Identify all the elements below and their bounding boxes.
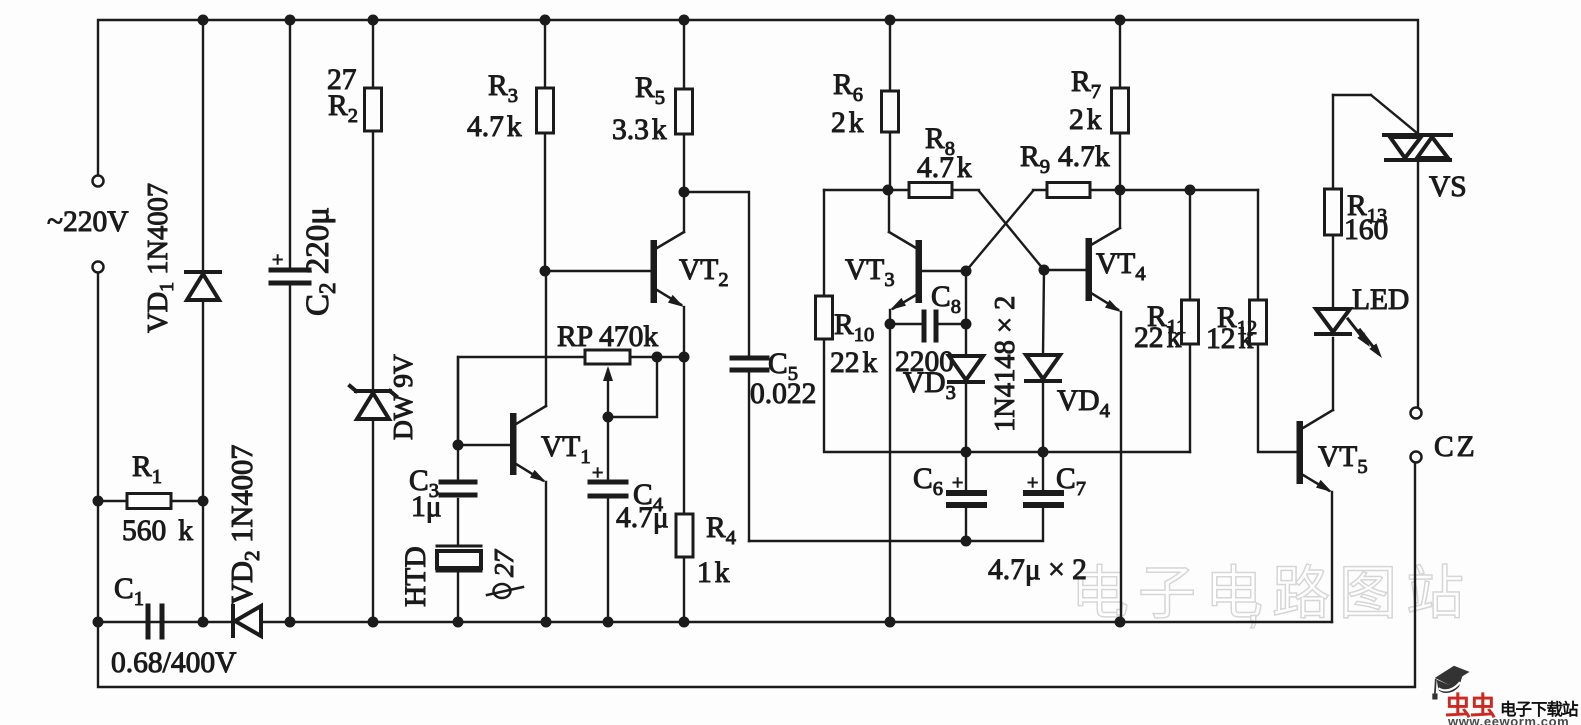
- svg-text:2k: 2k: [831, 107, 864, 139]
- junction C2 bottom: [285, 617, 296, 628]
- capacitor C4: [607, 417, 609, 480]
- svg-text:VT1: VT1: [541, 431, 591, 468]
- terminal CZ upper: [1411, 408, 1422, 419]
- resistor R3: [544, 20, 546, 88]
- junction C8 left: [885, 319, 896, 330]
- wire VT4 base: [1044, 269, 1086, 271]
- svg-text:4.7μ × 2: 4.7μ × 2: [988, 554, 1087, 586]
- svg-text:VS: VS: [1429, 171, 1467, 203]
- junction R1 left: [93, 496, 104, 507]
- logo chongchong red characters: [1445, 686, 1495, 723]
- junction VT2 emitter node: [679, 352, 690, 363]
- capacitor C6: [965, 452, 967, 491]
- resistor R11: [1189, 190, 1191, 300]
- svg-text:R1: R1: [132, 451, 162, 488]
- resistor R4: [683, 357, 685, 514]
- junction VT3 emitter bottom: [885, 617, 896, 628]
- junction R2 bottom: [368, 617, 379, 628]
- svg-text:R6: R6: [833, 69, 863, 106]
- junction VD3 bottom: [961, 447, 972, 458]
- wire VT3 base: [921, 270, 966, 272]
- svg-text:R5: R5: [635, 72, 665, 109]
- junction RP wiper: [603, 412, 614, 423]
- wire ground rail right: [261, 621, 1332, 623]
- svg-text:R7: R7: [1071, 66, 1101, 103]
- svg-text:1k: 1k: [697, 557, 730, 589]
- svg-text:VT2: VT2: [679, 254, 729, 291]
- junction VT1 collector node: [540, 266, 551, 277]
- svg-text:C2 220μ: C2 220μ: [300, 207, 340, 316]
- resistor R13: [1333, 94, 1371, 96]
- svg-text:0.68/400V: 0.68/400V: [111, 647, 236, 679]
- junction R1 right: [198, 496, 209, 507]
- svg-text:1μ: 1μ: [411, 491, 442, 523]
- wire C3 column: [457, 357, 459, 479]
- svg-text:12k: 12k: [1206, 323, 1254, 355]
- capacitor C2: [289, 20, 291, 268]
- potentiometer RP: [630, 356, 684, 358]
- resistor R1: [98, 500, 127, 502]
- resistor R2: [372, 20, 374, 88]
- logo site name: [1500, 696, 1578, 720]
- svg-text:HTD: HTD: [400, 546, 432, 607]
- wire R9 diagonal to VT3 base: [966, 191, 1033, 271]
- svg-text:0.022: 0.022: [750, 378, 816, 410]
- junction VT2 collector node: [679, 187, 690, 198]
- svg-text:VT4: VT4: [1096, 248, 1146, 285]
- capacitor C5: [684, 192, 749, 356]
- svg-text:R4: R4: [706, 512, 736, 549]
- logo url: [1448, 714, 1569, 725]
- junction HTD bottom: [453, 617, 464, 628]
- svg-text:R10: R10: [834, 309, 874, 346]
- watermark dianzi dianlu tuzhan: [1071, 546, 1473, 630]
- capacitor C3: [441, 480, 475, 485]
- resistor R7: [1119, 20, 1121, 88]
- diode VD1: [202, 20, 204, 269]
- svg-text:+: +: [592, 462, 603, 484]
- wire R8 diagonal to VT4 base: [979, 191, 1044, 270]
- wire VT1 base feed: [458, 357, 585, 445]
- junction C1 left: [93, 617, 104, 628]
- svg-text:2k: 2k: [1069, 104, 1102, 136]
- svg-text:VD4: VD4: [1057, 385, 1110, 422]
- junction RP right: [652, 352, 663, 363]
- capacitor C7: [1042, 452, 1044, 491]
- transistor VT4: [1119, 190, 1121, 228]
- wire top supply rail: [98, 20, 1418, 176]
- resistor R5: [683, 20, 685, 89]
- triac VS: [1384, 133, 1451, 137]
- junction VT3 base: [961, 266, 972, 277]
- junction C8 right: [961, 319, 972, 330]
- svg-text:160: 160: [1344, 214, 1388, 246]
- resistor R9: [1047, 183, 1090, 198]
- diode VD4: [1043, 270, 1044, 355]
- svg-text:4.7k: 4.7k: [467, 111, 522, 143]
- junction VT4 emitter bottom: [1115, 617, 1126, 628]
- terminal AC upper: [93, 176, 104, 187]
- svg-text:LED: LED: [1352, 284, 1409, 316]
- junction top rail x=203: [198, 15, 209, 26]
- diode VD3: [965, 271, 967, 355]
- junction VT1 emitter bottom: [541, 617, 552, 628]
- svg-text:3.3k: 3.3k: [612, 114, 667, 146]
- wire VT2 base: [545, 270, 651, 272]
- svg-text:R3: R3: [488, 70, 518, 107]
- svg-text:4.7μ: 4.7μ: [616, 502, 669, 534]
- svg-text:560k: 560k: [122, 515, 193, 547]
- transistor VT3: [888, 190, 890, 232]
- svg-text:27: 27: [489, 549, 519, 578]
- wire cross-coupling row: [824, 189, 909, 191]
- diode VD2: [235, 606, 261, 636]
- junction R4 bottom: [679, 617, 690, 628]
- svg-text:DW 9V: DW 9V: [387, 354, 418, 440]
- svg-text:4.7k: 4.7k: [917, 152, 972, 184]
- capacitor C1: [146, 606, 151, 637]
- svg-text:22k: 22k: [830, 347, 878, 379]
- LED: [1316, 309, 1350, 332]
- transistor VT2: [683, 192, 685, 232]
- svg-text:C1: C1: [114, 573, 144, 610]
- junction R6 bottom: [883, 185, 894, 196]
- junction top rail x=373: [368, 15, 379, 26]
- svg-text:VD2 1N4007: VD2 1N4007: [225, 445, 264, 605]
- wire C5 to C6 C7 bottom: [749, 509, 1043, 541]
- junction R11 top: [1185, 185, 1196, 196]
- label phi27: [494, 584, 511, 598]
- svg-text:~220V: ~220V: [47, 206, 129, 238]
- buzzer HTD: [437, 545, 481, 548]
- resistor R10: [823, 190, 825, 296]
- resistor R6: [889, 20, 891, 91]
- capacitor C8: [890, 323, 921, 325]
- svg-text:22k: 22k: [1134, 322, 1182, 354]
- terminal AC lower: [93, 262, 104, 273]
- svg-text:C7: C7: [1056, 463, 1086, 500]
- svg-text:VT3: VT3: [845, 254, 895, 291]
- wire ground rail: [98, 621, 232, 623]
- svg-text:C6: C6: [913, 463, 943, 500]
- svg-text:+: +: [952, 472, 963, 494]
- junction top rail x=684: [679, 15, 690, 26]
- junction top rail x=290: [285, 15, 296, 26]
- junction VT1 base: [453, 440, 464, 451]
- svg-text:VT5: VT5: [1318, 441, 1368, 478]
- junction VT4 base: [1039, 265, 1050, 276]
- transistor VT5: [1303, 410, 1333, 428]
- watermark comma marks: [1112, 568, 1126, 628]
- wire outer bottom loop: [98, 272, 1415, 687]
- svg-text:R94.7k: R94.7k: [1020, 141, 1110, 178]
- svg-text:CZ: CZ: [1434, 431, 1478, 463]
- junction R7 bottom: [1115, 185, 1126, 196]
- junction VD1 bottom: [198, 617, 209, 628]
- svg-text:+: +: [272, 249, 283, 271]
- terminal CZ lower: [1411, 452, 1422, 463]
- svg-text:C8: C8: [931, 281, 961, 318]
- junction C4 bottom: [603, 617, 614, 628]
- junction top rail x=890: [885, 15, 896, 26]
- junction top rail x=545: [540, 15, 551, 26]
- resistor R8: [909, 183, 952, 198]
- svg-text:1N4148 × 2: 1N4148 × 2: [990, 296, 1021, 432]
- svg-text:+: +: [1027, 472, 1038, 494]
- logo graduation cap: [1428, 664, 1473, 703]
- zener diode DW: [357, 393, 389, 419]
- junction VD4 bottom: [1038, 447, 1049, 458]
- svg-text:VD1 1N4007: VD1 1N4007: [143, 183, 178, 333]
- junction C6 bottom: [961, 536, 972, 547]
- svg-text:RP470k: RP470k: [557, 321, 658, 353]
- resistor R12: [1257, 190, 1259, 300]
- transistor VT1: [545, 271, 547, 406]
- junction top rail x=1120: [1115, 15, 1126, 26]
